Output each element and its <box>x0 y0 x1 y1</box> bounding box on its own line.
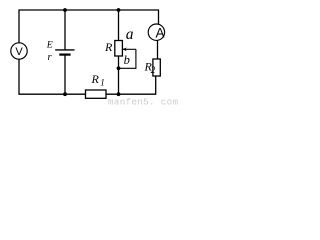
svg-text:a: a <box>126 26 134 43</box>
wire ammeter to R2 <box>157 41 159 60</box>
node dot top rheostat <box>117 8 121 12</box>
wire bottom-left rail: voltmeter bottom, left corner, bottom wire to R1 <box>19 59 86 94</box>
svg-text:R: R <box>104 40 113 54</box>
rheostat wiper arrow <box>119 49 136 68</box>
resistor R2 body <box>153 59 160 76</box>
svg-text:R: R <box>91 72 100 86</box>
rheostat R body <box>115 41 123 57</box>
svg-text:manfen5. com: manfen5. com <box>108 96 178 106</box>
svg-text:A: A <box>155 26 164 41</box>
svg-text:2: 2 <box>151 65 156 75</box>
wire bottom-right rail: R1 to right corner up to R2 bottom <box>106 76 156 94</box>
battery E (short thick plate) <box>59 53 70 55</box>
node dot wiper loop <box>117 66 121 70</box>
svg-text:E: E <box>46 39 53 50</box>
svg-text:1: 1 <box>100 78 105 88</box>
svg-text:V: V <box>15 46 23 58</box>
wire rheostat branch upper <box>118 10 120 41</box>
battery E (long plate) <box>55 49 74 51</box>
wire rheostat branch lower <box>118 56 120 94</box>
ammeter A1 <box>148 24 164 41</box>
resistor R1 body <box>86 90 107 98</box>
node dot top battery <box>63 8 67 12</box>
wire top rail: voltmeter top, left corner, top wire, right corner to ammeter <box>19 10 159 43</box>
node dot bottom rheostat <box>117 92 121 96</box>
wire battery branch upper <box>64 10 66 50</box>
svg-text:b: b <box>124 53 130 67</box>
wire battery branch lower <box>64 55 66 95</box>
node dot bottom battery <box>63 92 67 96</box>
voltmeter V1 <box>11 43 27 59</box>
